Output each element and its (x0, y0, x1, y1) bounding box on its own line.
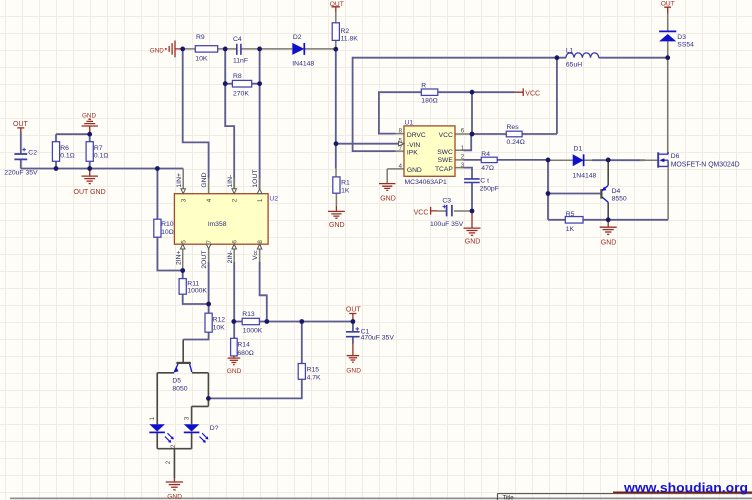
svg-text:R14: R14 (237, 341, 250, 348)
svg-text:R: R (421, 83, 426, 90)
svg-text:IPK: IPK (407, 150, 418, 157)
svg-text:1: 1 (257, 198, 264, 202)
svg-text:OUT: OUT (330, 1, 344, 8)
svg-text:2OUT: 2OUT (201, 251, 208, 269)
svg-text:C t: C t (480, 178, 489, 185)
svg-text:VCC: VCC (525, 90, 540, 97)
svg-text:65uH: 65uH (566, 62, 582, 69)
svg-text:L1: L1 (566, 48, 574, 55)
svg-text:R10: R10 (161, 221, 174, 228)
svg-text:Vcc: Vcc (252, 250, 259, 260)
svg-text:R9: R9 (196, 34, 205, 41)
svg-text:2: 2 (165, 460, 172, 464)
svg-text:6: 6 (461, 128, 465, 135)
svg-text:2IN-: 2IN- (227, 251, 234, 264)
svg-text:1000K: 1000K (243, 328, 263, 335)
svg-text:220uF 35V: 220uF 35V (4, 170, 38, 177)
svg-text:4: 4 (206, 198, 213, 202)
svg-text:3: 3 (183, 416, 190, 420)
svg-text:11.8K: 11.8K (341, 35, 359, 42)
svg-text:100uF 35V: 100uF 35V (430, 221, 464, 228)
svg-text:GND: GND (167, 494, 182, 500)
svg-text:R5: R5 (566, 211, 575, 218)
svg-text:Title: Title (503, 496, 515, 500)
svg-text:OUT GND: OUT GND (74, 189, 106, 196)
svg-text:1IN+: 1IN+ (176, 173, 183, 188)
svg-text:R8: R8 (233, 73, 242, 80)
svg-text:R2: R2 (341, 28, 350, 35)
svg-text:1OUT: 1OUT (252, 169, 259, 187)
svg-text:1K: 1K (341, 187, 350, 194)
svg-text:C4: C4 (233, 36, 242, 43)
svg-text:8: 8 (398, 128, 402, 135)
svg-text:GND: GND (82, 113, 96, 120)
svg-text:4: 4 (398, 163, 402, 170)
svg-text:R15: R15 (307, 367, 320, 374)
svg-text:8550: 8550 (612, 196, 627, 203)
svg-text:47Ω: 47Ω (481, 165, 494, 172)
svg-text:GND: GND (201, 172, 208, 187)
svg-text:4.7K: 4.7K (307, 375, 321, 382)
svg-text:MOSFET-N QM3024D: MOSFET-N QM3024D (671, 161, 740, 168)
svg-text:7: 7 (398, 145, 402, 152)
svg-text:C2: C2 (28, 150, 37, 157)
svg-text:8: 8 (257, 240, 264, 244)
svg-text:MC34063AP1: MC34063AP1 (405, 179, 448, 186)
svg-text:D1: D1 (574, 146, 583, 153)
svg-text:SWC: SWC (437, 149, 453, 156)
svg-text:8050: 8050 (172, 385, 187, 392)
svg-text:0.24Ω: 0.24Ω (507, 139, 525, 146)
svg-text:C3: C3 (442, 197, 451, 204)
svg-text:0.1Ω: 0.1Ω (94, 153, 109, 160)
svg-text:0.1Ω: 0.1Ω (60, 153, 75, 160)
svg-text:OUT: OUT (661, 1, 675, 8)
svg-text:3: 3 (461, 162, 465, 169)
svg-text:VCC: VCC (439, 132, 453, 139)
svg-text:Res: Res (507, 124, 520, 131)
svg-text:R13: R13 (242, 311, 255, 318)
svg-text:6: 6 (231, 240, 238, 244)
svg-text:GND: GND (465, 239, 481, 246)
svg-text:lm358: lm358 (208, 221, 227, 228)
svg-text:GND: GND (150, 48, 164, 55)
svg-text:680Ω: 680Ω (237, 350, 253, 357)
svg-text:250pF: 250pF (480, 185, 499, 192)
svg-text:D4: D4 (612, 188, 621, 195)
svg-text:2: 2 (231, 198, 238, 202)
svg-text:D2: D2 (293, 34, 302, 41)
svg-text:OUT: OUT (13, 121, 29, 128)
svg-text:GND: GND (329, 222, 345, 229)
svg-text:SWE: SWE (438, 157, 454, 164)
svg-text:-VIN: -VIN (407, 142, 421, 149)
svg-text:1000K: 1000K (187, 288, 207, 295)
svg-text:GND: GND (380, 195, 396, 202)
svg-text:1: 1 (461, 145, 465, 152)
svg-text:GND: GND (227, 368, 242, 375)
svg-text:R1: R1 (341, 179, 350, 186)
svg-text:GND: GND (346, 367, 361, 374)
svg-text:U2: U2 (269, 195, 278, 202)
svg-text:5: 5 (180, 240, 187, 244)
svg-text:R4: R4 (481, 151, 490, 158)
svg-text:www.shoudian.org: www.shoudian.org (623, 480, 748, 495)
svg-text:SS54: SS54 (677, 41, 694, 48)
svg-text:10K: 10K (195, 55, 208, 62)
svg-text:U1: U1 (405, 120, 414, 127)
svg-text:180Ω: 180Ω (421, 97, 437, 104)
svg-text:D?: D? (210, 425, 219, 432)
svg-text:DRVC: DRVC (407, 132, 426, 139)
svg-text:1: 1 (149, 416, 156, 420)
svg-text:3: 3 (180, 198, 187, 202)
svg-text:D5: D5 (172, 377, 181, 384)
svg-text:GND: GND (601, 240, 617, 247)
svg-text:2IN+: 2IN+ (175, 250, 182, 265)
svg-text:1IN-: 1IN- (227, 175, 234, 188)
svg-text:5: 5 (398, 137, 402, 144)
svg-text:7: 7 (206, 240, 213, 244)
svg-text:D3: D3 (677, 34, 686, 41)
svg-text:470uF 35V: 470uF 35V (361, 335, 395, 342)
svg-text:GND: GND (407, 167, 422, 174)
svg-text:R12: R12 (213, 316, 226, 323)
svg-text:1K: 1K (566, 226, 575, 233)
svg-text:270K: 270K (233, 91, 249, 98)
svg-text:1N4148: 1N4148 (573, 172, 597, 179)
svg-text:D6: D6 (671, 153, 680, 160)
svg-text:10K: 10K (213, 325, 226, 332)
svg-text:OUT: OUT (346, 307, 362, 314)
svg-text:TCAP: TCAP (435, 166, 453, 173)
svg-text:11nF: 11nF (233, 57, 248, 64)
svg-text:R11: R11 (187, 281, 199, 288)
svg-text:R7: R7 (94, 145, 103, 152)
svg-text:VCC: VCC (414, 209, 429, 216)
svg-text:2: 2 (461, 154, 465, 161)
svg-text:2: 2 (170, 444, 177, 448)
svg-text:IN4148: IN4148 (292, 60, 314, 67)
svg-text:R6: R6 (60, 145, 69, 152)
svg-text:10Ω: 10Ω (161, 229, 174, 236)
